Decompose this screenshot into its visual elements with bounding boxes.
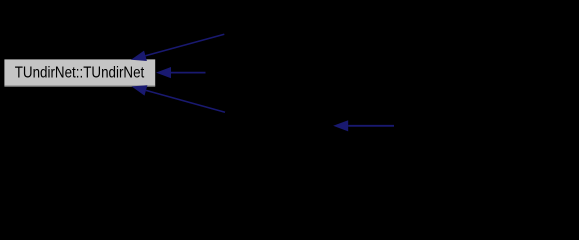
edge arrow: caller 3 (bottom right) to TUndirNet::TUndirNet: [132, 85, 226, 112]
wire: edge line 2: [171, 72, 206, 74]
edge arrow: caller 1 (top right) to TUndirNet::TUndirNet: [131, 34, 224, 61]
wire: edge line 3: [146, 90, 225, 112]
arrowhead 1: [131, 51, 147, 61]
edge arrow: caller 4 (far bottom right) into caller 3 node: [333, 120, 394, 131]
wire: edge line 1: [146, 34, 225, 56]
node TUndirNet::TUndirNet: [4, 59, 155, 86]
arrowhead 2: [156, 67, 171, 78]
wire: edge line 4: [348, 125, 394, 127]
svg-text:TUndirNet::TUndirNet: TUndirNet::TUndirNet: [15, 65, 145, 82]
arrowhead 3: [132, 85, 148, 95]
arrowhead 4: [333, 120, 348, 131]
edge arrow: caller 2 (middle right) to TUndirNet::TUndirNet: [156, 67, 206, 78]
